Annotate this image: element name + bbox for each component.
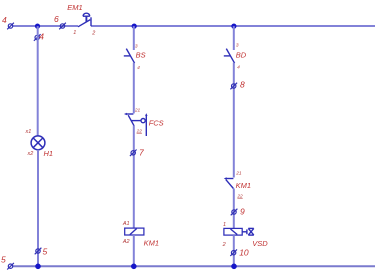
wire bottom rail xyxy=(13,265,375,267)
svg-text:1: 1 xyxy=(223,222,226,228)
svg-text:KM1: KM1 xyxy=(144,238,159,247)
svg-text:9: 9 xyxy=(240,206,245,216)
svg-text:3: 3 xyxy=(135,43,138,49)
node 7 terminal xyxy=(130,150,137,157)
svg-text:10: 10 xyxy=(239,248,249,258)
svg-text:FCS: FCS xyxy=(149,119,164,128)
contact KM1 (NC) xyxy=(224,177,234,188)
wire middle branch FCS to coil xyxy=(133,126,135,229)
svg-text:4: 4 xyxy=(2,15,7,25)
flow switch FCS xyxy=(124,113,148,136)
wire right branch KM1 contact to VSD xyxy=(233,189,235,229)
svg-text:EM1: EM1 xyxy=(67,3,82,12)
junction dot (top rail / right branch) xyxy=(231,24,236,29)
svg-text:A1: A1 xyxy=(122,221,130,227)
junction dot (top rail / left branch) xyxy=(35,24,40,29)
svg-text:8: 8 xyxy=(240,79,245,89)
svg-text:VSD: VSD xyxy=(252,239,268,248)
coil KM1 xyxy=(125,228,144,235)
node 5 terminal (left branch) xyxy=(35,248,42,255)
svg-text:4: 4 xyxy=(137,65,140,71)
junction dot (bottom rail / left branch) xyxy=(35,264,41,270)
svg-text:BS: BS xyxy=(136,51,146,60)
node 9 terminal xyxy=(231,209,238,216)
wire middle branch from rail to BS xyxy=(133,26,135,50)
wire right branch VSD to rail xyxy=(233,235,235,266)
svg-text:4: 4 xyxy=(237,65,240,71)
svg-text:6: 6 xyxy=(54,14,59,24)
node 5 terminal (far left bottom) xyxy=(7,263,14,270)
svg-text:1: 1 xyxy=(73,30,76,36)
svg-text:22: 22 xyxy=(236,193,243,199)
node 8 terminal xyxy=(230,83,237,90)
wire left branch lower xyxy=(37,150,39,267)
node 4 terminal (far left) xyxy=(7,23,14,30)
svg-text:5: 5 xyxy=(43,247,48,257)
node 10 terminal xyxy=(230,249,237,256)
wire right branch from rail to BD xyxy=(233,26,235,50)
solenoid valve VSD xyxy=(224,228,254,235)
svg-text:A2: A2 xyxy=(122,239,130,245)
wire middle branch coil to rail xyxy=(133,235,135,266)
pushbutton EM1 xyxy=(78,13,91,27)
svg-text:21: 21 xyxy=(134,108,141,114)
wire top rail left segment xyxy=(13,25,78,27)
svg-text:3: 3 xyxy=(236,42,239,48)
wire right branch BD to KM1 contact xyxy=(233,63,235,178)
node 6 terminal xyxy=(59,23,66,30)
pushbutton BS xyxy=(124,49,135,64)
pushbutton BD xyxy=(224,49,235,64)
svg-text:4: 4 xyxy=(39,31,44,41)
svg-text:x2: x2 xyxy=(27,151,34,157)
svg-text:BD: BD xyxy=(236,51,247,60)
svg-text:x1: x1 xyxy=(25,129,32,135)
svg-text:7: 7 xyxy=(139,148,144,158)
svg-text:21: 21 xyxy=(235,171,242,177)
junction dot (top rail / middle branch) xyxy=(132,24,137,29)
svg-text:22: 22 xyxy=(136,128,143,134)
svg-text:H1: H1 xyxy=(44,149,54,158)
wire middle branch BS to FCS xyxy=(133,63,135,114)
lamp H1 xyxy=(31,136,45,150)
wire left branch upper xyxy=(37,26,39,136)
junction dot (bottom rail / middle branch) xyxy=(131,264,137,270)
node 4 terminal (below junction) xyxy=(34,34,41,41)
svg-text:5: 5 xyxy=(1,255,6,265)
svg-text:2: 2 xyxy=(91,30,95,36)
junction dot (bottom rail / right branch) xyxy=(231,264,237,270)
svg-text:KM1: KM1 xyxy=(236,181,251,190)
wire top rail right segment xyxy=(91,25,375,27)
svg-text:2: 2 xyxy=(222,242,226,248)
